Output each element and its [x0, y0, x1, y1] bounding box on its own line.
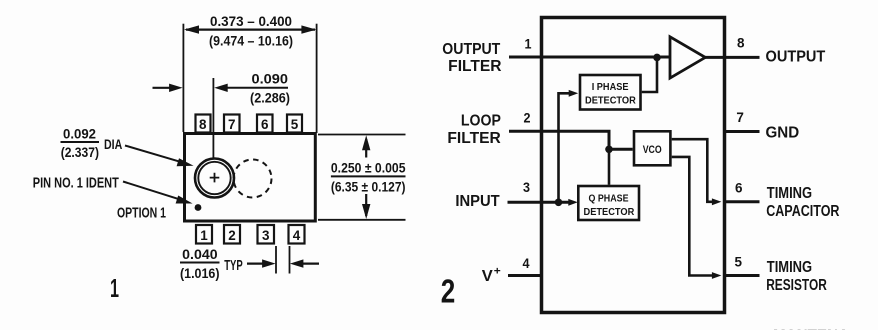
svg-text:OPTION 1: OPTION 1 — [117, 205, 166, 222]
svg-text:5: 5 — [735, 254, 743, 270]
svg-text:(6.35 ± 0.127): (6.35 ± 0.127) — [331, 179, 406, 194]
svg-text:LOOP: LOOP — [461, 112, 501, 129]
svg-text:7: 7 — [228, 116, 236, 132]
svg-text:Q PHASE: Q PHASE — [589, 193, 629, 204]
svg-text:0.090: 0.090 — [252, 71, 289, 86]
svg-text:DETECTOR: DETECTOR — [584, 207, 636, 218]
svg-text:3: 3 — [523, 179, 530, 195]
svg-text:OUTPUT: OUTPUT — [766, 49, 826, 66]
svg-text:6: 6 — [261, 116, 269, 132]
svg-text:TYP: TYP — [224, 257, 243, 274]
svg-text:1: 1 — [525, 35, 532, 51]
svg-text:6: 6 — [735, 180, 743, 196]
svg-text:TIMING: TIMING — [767, 259, 812, 276]
svg-text:2: 2 — [228, 227, 236, 243]
svg-text:(2.286): (2.286) — [250, 90, 290, 105]
svg-text:+: + — [494, 266, 501, 278]
svg-text:(1.016): (1.016) — [180, 266, 220, 281]
svg-text:TIMING: TIMING — [767, 185, 812, 202]
svg-text:8: 8 — [737, 34, 745, 50]
svg-text:(9.474 – 10.16): (9.474 – 10.16) — [209, 32, 293, 48]
svg-text:V: V — [482, 268, 494, 285]
svg-text:1: 1 — [110, 273, 119, 303]
svg-text:2: 2 — [524, 110, 531, 126]
svg-text:DIA: DIA — [104, 136, 122, 152]
svg-text:OUTPUT: OUTPUT — [442, 41, 500, 58]
svg-text:3: 3 — [262, 227, 270, 243]
svg-text:PIN NO. 1 IDENT: PIN NO. 1 IDENT — [33, 175, 119, 192]
svg-text:INPUT: INPUT — [455, 193, 500, 210]
svg-text:(2.337): (2.337) — [61, 145, 99, 160]
svg-text:4: 4 — [523, 255, 530, 271]
svg-text:RESISTOR: RESISTOR — [766, 277, 827, 294]
svg-text:GND: GND — [766, 125, 800, 142]
svg-text:0.092: 0.092 — [63, 127, 96, 142]
svg-text:FILTER: FILTER — [447, 130, 500, 147]
svg-text:4: 4 — [293, 227, 301, 243]
svg-text:0.250 ± 0.005: 0.250 ± 0.005 — [331, 161, 406, 176]
svg-text:VCO: VCO — [643, 144, 662, 156]
svg-text:CAPACITOR: CAPACITOR — [766, 203, 839, 220]
svg-text:DETECTOR: DETECTOR — [585, 95, 637, 106]
svg-text:I PHASE: I PHASE — [592, 82, 629, 93]
svg-text:5: 5 — [291, 116, 299, 132]
svg-text:0.040: 0.040 — [182, 247, 217, 262]
svg-text:7: 7 — [736, 109, 744, 125]
svg-text:8: 8 — [199, 116, 207, 132]
svg-text:FILTER: FILTER — [448, 58, 501, 75]
svg-text:2: 2 — [441, 273, 456, 310]
svg-text:1: 1 — [200, 227, 208, 243]
svg-text:0.373 – 0.400: 0.373 – 0.400 — [210, 13, 292, 29]
